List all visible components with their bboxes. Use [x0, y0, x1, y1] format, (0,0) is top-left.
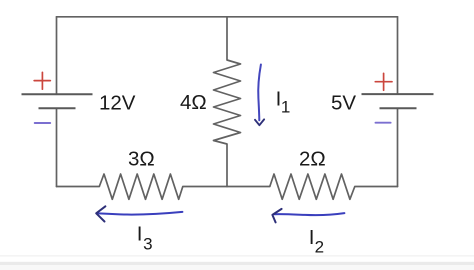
battery B2 5V plates — [362, 94, 434, 108]
current arrow I2 (blue, left) — [272, 209, 344, 223]
wire right lower — [397, 108, 399, 186]
current arrow I1 (blue, down) — [255, 65, 264, 126]
minus sign left (violet) — [35, 122, 51, 124]
bottom ui line — [0, 255, 474, 256]
wire left lower — [56, 108, 58, 186]
wire bottom middle — [183, 186, 270, 188]
svg-text:3Ω: 3Ω — [128, 148, 155, 171]
wire top — [57, 16, 398, 18]
wire left upper — [56, 17, 58, 95]
resistor R2 3ohm horizontal — [99, 174, 183, 199]
bottom ui band — [0, 262, 474, 265]
resistor R3 2ohm horizontal — [270, 174, 355, 199]
svg-text:12V: 12V — [99, 91, 136, 114]
svg-text:4Ω: 4Ω — [180, 91, 207, 114]
resistor R1 4ohm vertical — [214, 60, 241, 144]
minus sign right (violet) — [376, 122, 391, 124]
svg-text:3: 3 — [143, 235, 152, 254]
wire bottom right — [355, 186, 398, 188]
wire bottom left — [57, 186, 100, 188]
battery B1 12V plates — [22, 94, 93, 108]
wire right upper — [397, 17, 399, 94]
svg-text:1: 1 — [281, 98, 290, 117]
wire middle branch bottom — [226, 144, 228, 187]
svg-text:2Ω: 2Ω — [299, 148, 326, 171]
wire middle branch top — [226, 17, 228, 60]
svg-text:5V: 5V — [331, 92, 356, 115]
current arrow I3 (blue, left) — [96, 206, 182, 221]
svg-text:2: 2 — [315, 237, 324, 256]
plus sign right (red) — [375, 73, 392, 90]
plus sign left (red) — [34, 72, 50, 89]
svg-text:I: I — [137, 222, 143, 245]
